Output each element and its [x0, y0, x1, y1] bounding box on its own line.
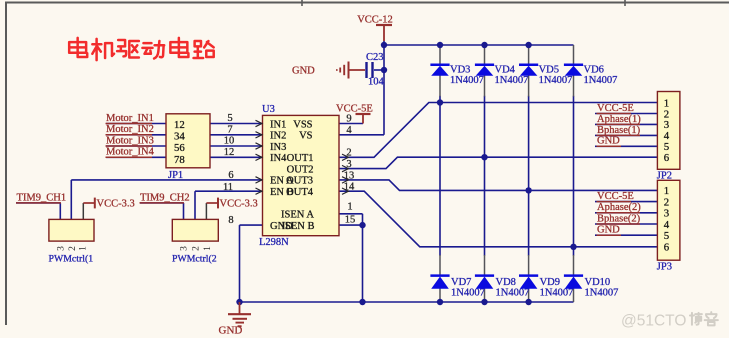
- svg-text:11: 11: [223, 182, 233, 193]
- svg-text:Bphase(1): Bphase(1): [597, 125, 641, 136]
- svg-text:OUT3: OUT3: [286, 176, 313, 187]
- svg-text:1: 1: [79, 246, 89, 251]
- svg-text:Motor_IN1: Motor_IN1: [106, 113, 154, 124]
- svg-text:Motor_IN4: Motor_IN4: [106, 147, 155, 158]
- svg-text:C23: C23: [366, 52, 384, 63]
- svg-text:5: 5: [227, 113, 232, 124]
- svg-text:12: 12: [174, 119, 185, 131]
- svg-text:78: 78: [174, 154, 185, 166]
- svg-text:2: 2: [191, 246, 201, 251]
- svg-text:2: 2: [68, 246, 78, 251]
- svg-text:TIM9_CH1: TIM9_CH1: [17, 192, 67, 203]
- svg-text:5: 5: [664, 230, 669, 242]
- svg-text:VD7: VD7: [451, 277, 471, 288]
- svg-text:Aphase(1): Aphase(1): [597, 114, 641, 125]
- svg-text:VCC-3.3: VCC-3.3: [220, 199, 258, 210]
- svg-text:2: 2: [346, 148, 351, 159]
- svg-text:2: 2: [664, 196, 669, 208]
- svg-text:8: 8: [228, 215, 233, 226]
- svg-text:VD9: VD9: [540, 277, 560, 288]
- svg-text:14: 14: [344, 182, 355, 193]
- svg-text:VCC-5E: VCC-5E: [597, 191, 634, 202]
- svg-text:1N4007: 1N4007: [451, 287, 485, 298]
- svg-text:34: 34: [174, 131, 185, 143]
- svg-text:15: 15: [345, 214, 356, 225]
- svg-text:JP1: JP1: [168, 170, 183, 181]
- svg-text:GND: GND: [597, 225, 620, 236]
- svg-text:VCC-12: VCC-12: [357, 14, 393, 25]
- svg-text:TIM9_CH2: TIM9_CH2: [140, 192, 190, 203]
- svg-text:IN4: IN4: [270, 153, 287, 164]
- svg-text:IN3: IN3: [270, 142, 286, 153]
- svg-text:6: 6: [664, 242, 670, 254]
- svg-text:1: 1: [203, 246, 213, 251]
- svg-text:6: 6: [664, 152, 670, 164]
- svg-text:VD8: VD8: [496, 277, 516, 288]
- svg-text:VD10: VD10: [585, 277, 611, 288]
- svg-text:1N4007: 1N4007: [539, 75, 573, 86]
- svg-text:6: 6: [228, 170, 233, 181]
- svg-text:3: 3: [56, 246, 66, 251]
- svg-text:@51CTO: @51CTO: [621, 313, 686, 330]
- svg-text:13: 13: [344, 170, 355, 181]
- svg-text:1N4007: 1N4007: [496, 287, 530, 298]
- svg-text:VSS: VSS: [293, 119, 312, 130]
- svg-text:1N4007: 1N4007: [450, 75, 484, 86]
- svg-text:IN2: IN2: [270, 131, 286, 142]
- svg-text:VCC-3.3: VCC-3.3: [97, 199, 135, 210]
- svg-text:9: 9: [346, 113, 351, 124]
- svg-text:VCC-5E: VCC-5E: [597, 103, 634, 114]
- svg-text:1N4007: 1N4007: [584, 75, 618, 86]
- svg-text:VCC-5E: VCC-5E: [336, 104, 373, 115]
- svg-text:U3: U3: [262, 104, 275, 115]
- svg-text:3: 3: [664, 208, 669, 220]
- svg-text:12: 12: [224, 147, 235, 158]
- svg-text:7: 7: [227, 124, 232, 135]
- svg-text:104: 104: [368, 76, 385, 87]
- svg-text:JP2: JP2: [657, 170, 672, 181]
- svg-text:GND: GND: [597, 136, 620, 147]
- svg-text:ISEN B: ISEN B: [282, 221, 315, 232]
- svg-text:OUT1: OUT1: [287, 153, 314, 164]
- svg-text:JP3: JP3: [657, 261, 672, 272]
- svg-text:1N4007: 1N4007: [585, 287, 619, 298]
- svg-text:1N4007: 1N4007: [540, 287, 574, 298]
- svg-text:Motor_IN3: Motor_IN3: [106, 135, 154, 146]
- svg-text:GND: GND: [292, 65, 315, 76]
- svg-text:4: 4: [346, 125, 352, 136]
- svg-text:1: 1: [664, 185, 669, 197]
- svg-text:56: 56: [174, 142, 185, 154]
- svg-text:Aphase(2): Aphase(2): [597, 202, 641, 213]
- svg-text:3: 3: [180, 246, 190, 251]
- svg-text:1: 1: [347, 202, 352, 213]
- svg-text:VS: VS: [299, 131, 313, 142]
- svg-text:IN1: IN1: [270, 119, 286, 130]
- svg-text:PWMctrl(2: PWMctrl(2: [172, 253, 217, 264]
- svg-text:L298N: L298N: [259, 237, 289, 248]
- svg-text:10: 10: [224, 136, 235, 147]
- svg-text:Bphase(2): Bphase(2): [597, 213, 641, 224]
- svg-text:PWMctrl(1: PWMctrl(1: [49, 253, 94, 264]
- svg-text:1N4007: 1N4007: [495, 75, 529, 86]
- svg-text:ISEN A: ISEN A: [281, 210, 314, 221]
- svg-text:Motor_IN2: Motor_IN2: [106, 124, 154, 135]
- svg-text:4: 4: [664, 219, 670, 231]
- svg-text:OUT4: OUT4: [286, 187, 314, 198]
- svg-text:3: 3: [346, 159, 351, 170]
- svg-text:OUT2: OUT2: [287, 164, 314, 175]
